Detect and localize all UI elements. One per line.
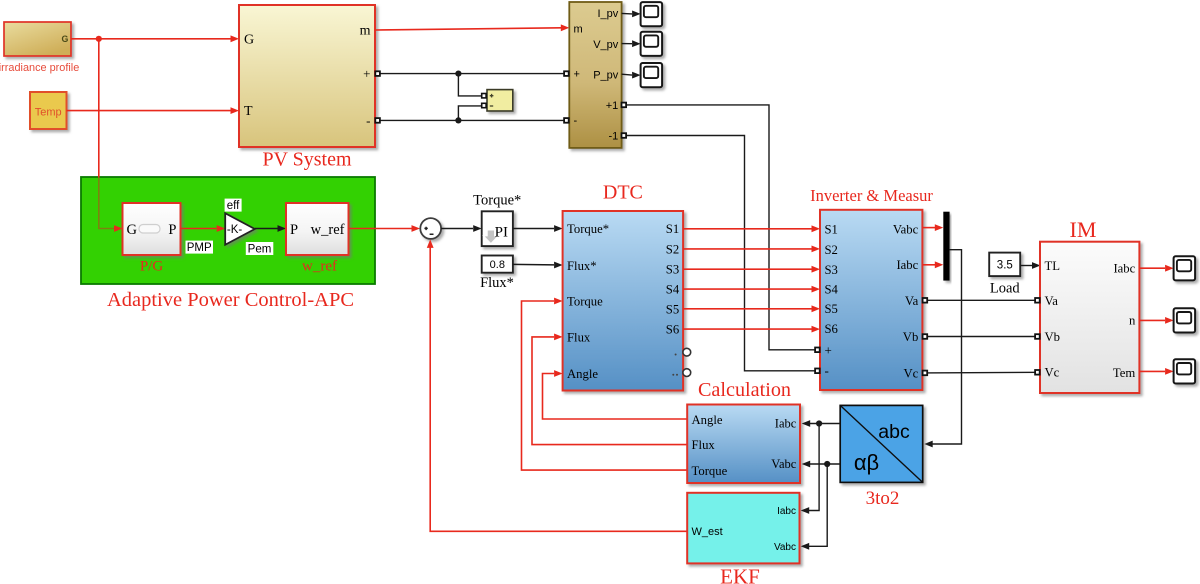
svg-text:G: G — [61, 34, 68, 44]
controller PI — [482, 211, 513, 246]
svg-text:Iabc: Iabc — [896, 258, 918, 272]
svg-text:I_pv: I_pv — [598, 8, 619, 20]
svg-text:S1: S1 — [666, 222, 679, 236]
block voltage measurement — [487, 90, 513, 111]
wire -1 to inverter - — [625, 136, 820, 371]
wire Iabc to scope — [1139, 267, 1165, 269]
wire S3 DTC to inverter — [683, 268, 811, 270]
svg-text:DTC: DTC — [603, 181, 643, 203]
wire S1 DTC to inverter — [683, 228, 811, 230]
svg-text:Vc: Vc — [1045, 365, 1060, 379]
svg-text:-1: -1 — [609, 130, 619, 142]
svg-text:S3: S3 — [666, 263, 679, 277]
svg-text:Angle: Angle — [567, 367, 598, 381]
svg-text:S1: S1 — [825, 223, 838, 237]
svg-text:3.5: 3.5 — [997, 260, 1013, 272]
svg-text:-K-: -K- — [227, 224, 243, 236]
unconnected port 1 — [683, 348, 691, 356]
bus selector block (tan) — [569, 2, 621, 148]
wire G out to PV System G input — [71, 38, 236, 40]
svg-text:TL: TL — [1045, 259, 1061, 273]
svg-text:Angle: Angle — [692, 413, 723, 427]
svg-text:-: - — [574, 115, 578, 127]
bus bar mux — [943, 212, 949, 281]
svg-text:S5: S5 — [666, 303, 679, 317]
subsystem EKF — [687, 493, 799, 564]
port square (924.9,336.5) — [922, 333, 928, 339]
svg-text:Torque*: Torque* — [473, 193, 521, 209]
svg-text:Torque: Torque — [567, 295, 603, 309]
wire Vc — [922, 371, 1040, 374]
wire +1 to inverter + — [625, 105, 820, 350]
wire m from PV to bus block — [375, 28, 561, 30]
constant 0.8 — [482, 256, 513, 273]
wire PMP from P/G to gain — [181, 228, 217, 230]
svg-text:IM: IM — [1070, 217, 1097, 242]
svg-text:Vb: Vb — [903, 330, 919, 344]
port square (566.4,120.4) — [563, 117, 569, 123]
transform block 3to2 — [840, 405, 923, 482]
svg-text:-: - — [825, 363, 829, 378]
wire Va — [922, 299, 1040, 301]
svg-text:S2: S2 — [825, 243, 838, 257]
wire n to scope — [1139, 319, 1165, 321]
sum block — [420, 218, 441, 239]
port square (623.8,104.9) — [621, 102, 627, 108]
svg-text:Flux: Flux — [567, 331, 591, 345]
svg-text:Torque*: Torque* — [567, 222, 609, 236]
svg-text:S6: S6 — [666, 323, 679, 337]
scope n — [1174, 308, 1196, 332]
port square (1037.4,372.3) — [1034, 369, 1040, 375]
svg-text:P_pv: P_pv — [593, 69, 619, 81]
svg-text:V_pv: V_pv — [593, 39, 619, 51]
svg-text:+: + — [574, 68, 580, 80]
wire branch to voltage measurement + — [458, 74, 483, 96]
svg-text:Temp: Temp — [35, 106, 62, 118]
port square (377.6,73.6) — [374, 70, 380, 76]
svg-text:Va: Va — [1045, 294, 1059, 308]
port square (566.4,73.6) — [563, 70, 569, 76]
svg-text:G: G — [244, 32, 254, 47]
subsystem Inverter & Measur — [820, 210, 922, 390]
svg-text:+1: +1 — [606, 100, 619, 112]
svg-text:S4: S4 — [666, 283, 680, 297]
svg-text:Tem: Tem — [1113, 366, 1135, 380]
subsystem DTC — [563, 211, 684, 391]
scope I_pv — [641, 2, 663, 26]
wire S2 DTC to inverter — [683, 248, 811, 250]
svg-text:m: m — [574, 23, 583, 35]
wire S4 DTC to inverter — [683, 288, 811, 290]
label PMP — [186, 241, 214, 254]
svg-text:Flux*: Flux* — [480, 275, 514, 291]
svg-text:Adaptive Power Control-APC: Adaptive Power Control-APC — [107, 289, 354, 311]
svg-text:S2: S2 — [666, 242, 679, 256]
port square (1037.4,300.3) — [1034, 297, 1040, 303]
svg-text:eff: eff — [227, 200, 240, 212]
wire Calculation Torque to DTC Torque — [522, 301, 688, 470]
scope Tem — [1174, 359, 1196, 383]
svg-text:Flux: Flux — [692, 438, 716, 452]
port square (483.9,95.7) — [481, 93, 487, 99]
svg-text:Vabc: Vabc — [893, 223, 919, 237]
svg-text:Iabc: Iabc — [775, 417, 797, 431]
scope Iabc — [1174, 256, 1196, 280]
svg-text:P: P — [290, 222, 298, 238]
svg-text:3to2: 3to2 — [866, 488, 900, 509]
subsystem w_ref — [286, 203, 349, 255]
svg-text:Iabc: Iabc — [1113, 261, 1135, 275]
svg-text:EKF: EKF — [720, 565, 760, 584]
svg-text:Iabc: Iabc — [777, 506, 796, 517]
svg-text:PI: PI — [495, 225, 508, 241]
wire 0.8 to DTC Flux* — [513, 263, 554, 266]
label Pem — [246, 242, 273, 255]
wire Pem gain to w_ref — [255, 228, 278, 230]
subsystem P/G — [123, 203, 181, 255]
svg-text:P/G: P/G — [140, 259, 164, 275]
label eff — [225, 199, 242, 212]
svg-text:m: m — [360, 24, 371, 39]
svg-text:-: - — [366, 113, 370, 128]
svg-text:S6: S6 — [825, 322, 838, 336]
port square (924.9,300.3) — [922, 297, 928, 303]
wire PV + to mux + — [375, 73, 569, 75]
node junction on G wire — [96, 36, 102, 42]
node junction Vabc — [824, 461, 830, 467]
wire Tem to scope — [1139, 370, 1165, 372]
svg-text:Torque: Torque — [692, 464, 728, 478]
svg-text:G: G — [127, 222, 138, 238]
area Adaptive Power Control-APC — [81, 177, 375, 284]
svg-text:Load: Load — [990, 281, 1021, 297]
wire Calculation Angle to DTC Angle — [543, 374, 688, 420]
gain eff -K- — [225, 213, 255, 245]
wire PV - to mux - — [375, 119, 569, 121]
subsystem IM — [1040, 242, 1139, 393]
wire V_pv to scope — [622, 43, 632, 45]
node junction - — [455, 117, 461, 123]
scope P_pv — [641, 63, 663, 87]
subsystem Calculation — [687, 405, 800, 484]
wire S6 DTC to inverter — [683, 328, 811, 330]
port square (924.9,372.9) — [922, 370, 928, 376]
svg-text:+: + — [363, 66, 370, 81]
port square (1037.4,336.5) — [1034, 333, 1040, 339]
svg-text:irradiance profile: irradiance profile — [0, 62, 79, 74]
wire branch to voltage measurement - — [458, 106, 483, 121]
svg-text:S3: S3 — [825, 263, 838, 277]
constant 3.5 Load — [989, 253, 1020, 277]
svg-text:PV System: PV System — [262, 149, 352, 171]
svg-text:n: n — [1129, 314, 1136, 328]
wire branch to EKF Iabc — [808, 424, 820, 511]
wire I_pv to scope — [622, 12, 632, 15]
wire Vb — [922, 336, 1040, 338]
wire w_ref output to sum — [349, 228, 412, 230]
node junction Iabc — [816, 420, 822, 426]
svg-text:w_ref: w_ref — [311, 222, 345, 238]
svg-text:αβ: αβ — [854, 450, 879, 475]
svg-text:0.8: 0.8 — [490, 259, 505, 271]
port square (377.6,120.4) — [374, 117, 380, 123]
svg-text:S4: S4 — [825, 282, 839, 296]
svg-text:Inverter & Measur: Inverter & Measur — [810, 186, 933, 205]
port square (483.9,105.5) — [481, 103, 487, 109]
svg-text:+: + — [825, 342, 832, 357]
svg-text:Vb: Vb — [1045, 330, 1061, 344]
svg-text:P: P — [168, 222, 176, 238]
svg-text:Va: Va — [905, 294, 919, 308]
svg-text:S5: S5 — [825, 302, 838, 316]
svg-text:Flux*: Flux* — [567, 259, 597, 273]
wire 3to2 to Calculation Iabc — [809, 423, 841, 425]
svg-text:T: T — [244, 104, 253, 119]
wire branch to EKF Vabc — [808, 464, 828, 546]
node junction + — [455, 71, 461, 77]
wire Calculation Flux to DTC Flux — [532, 337, 687, 445]
wire 3to2 to Calculation Vabc — [809, 463, 841, 465]
svg-text:w_ref: w_ref — [302, 259, 337, 275]
svg-text:Vabc: Vabc — [774, 542, 796, 553]
constant block Temp — [30, 92, 67, 129]
wire S5 DTC to inverter — [683, 308, 811, 310]
subsystem PV System — [239, 5, 375, 147]
svg-text:PMP: PMP — [187, 242, 212, 254]
wire P_pv to scope — [622, 73, 632, 76]
wire PI to DTC Torque* — [513, 228, 554, 230]
svg-text:Pem: Pem — [248, 244, 272, 256]
wire Iabc to bus bar — [922, 264, 935, 266]
wire Load to IM TL — [1020, 265, 1032, 267]
svg-text:Vabc: Vabc — [771, 457, 796, 471]
unconnected port 2 — [683, 369, 691, 377]
port square (817.4,349.8) — [814, 347, 820, 353]
source block irradiance profile — [4, 22, 71, 56]
scope V_pv — [641, 32, 663, 56]
wire sum to PI — [441, 228, 473, 230]
wire bus bar to 3to2 — [931, 250, 962, 444]
svg-text:W_est: W_est — [692, 526, 723, 538]
wire Temp to PV System T input — [67, 110, 237, 112]
port square (817.4,370.8) — [814, 368, 820, 374]
svg-text:abc: abc — [878, 421, 910, 443]
wire Vabc to bus bar — [922, 227, 935, 229]
wire branch G down to APC (olive under green area) — [98, 39, 100, 178]
svg-text:Vc: Vc — [904, 366, 919, 380]
svg-text:Calculation: Calculation — [698, 379, 791, 401]
port square (623.8,135.5) — [621, 132, 627, 138]
wire feedback W_est from EKF to sum — [430, 245, 687, 531]
